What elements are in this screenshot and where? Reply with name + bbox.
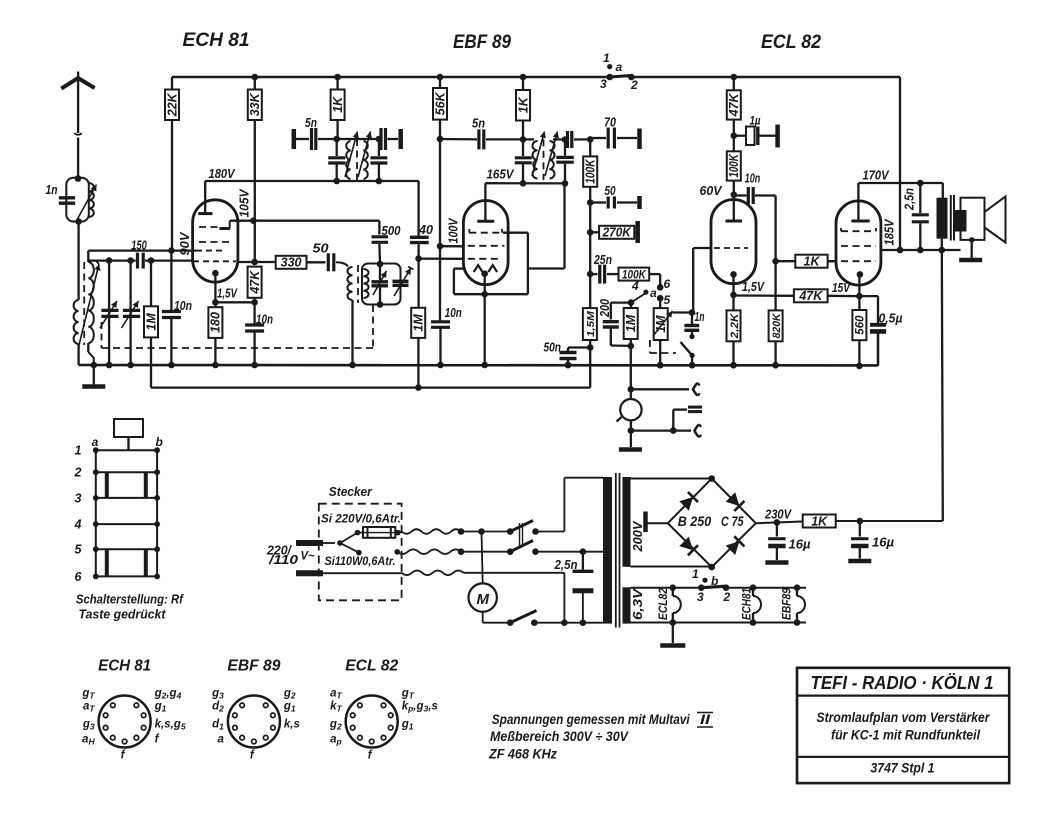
svg-text:40: 40 [418,223,433,237]
svg-text:33K: 33K [248,92,262,116]
resistor 1M (volume divider) [624,308,638,339]
mains plug prong top [296,540,323,546]
svg-text:k,s: k,s [284,719,300,731]
svg-text:1K: 1K [516,96,530,113]
tube ECL82 pentode envelope [836,201,881,285]
wire oscillator feed y=220.7 [230,220,380,222]
ECH81 heptode anode [198,212,212,215]
svg-text:5n: 5n [305,116,317,130]
switch (tone) [681,342,693,355]
pickup plug [672,410,674,431]
svg-text:56K: 56K [433,91,447,115]
pickup line [630,389,632,399]
bridge rectifier B250 C75 [631,478,712,480]
variable capacitor osc 1 [379,264,381,280]
resistor 100K (detector) [583,156,597,186]
capacitor 10n (ECL82 coupling) [734,194,747,196]
svg-text:a: a [650,286,657,300]
svg-text:10n: 10n [256,313,273,327]
wire OT bottom to B+ [941,239,943,250]
wire g1 line 100V [437,243,444,250]
svg-text:EBF 89: EBF 89 [453,32,511,53]
ECH81 cathode [212,270,219,277]
svg-text:5: 5 [75,543,83,557]
svg-text:kp,g3,s: kp,g3,s [402,701,438,714]
dashed AVC bus [101,322,103,348]
svg-text:TEFI - RADIO · KÖLN 1: TEFI - RADIO · KÖLN 1 [811,673,994,693]
oscillator coil [347,267,352,300]
svg-text:B 250: B 250 [678,513,712,529]
svg-text:ECL 82: ECL 82 [761,32,821,53]
mains switch pole 2 [458,548,465,555]
IF transformer 1 terminal left [292,129,297,149]
wire anode 170V line [858,182,942,184]
EBF89 diode plates [474,265,483,272]
wire AVC/grid line y=250.5 [88,249,196,251]
svg-text:5: 5 [664,293,671,307]
wire B+ top bus [172,76,610,79]
svg-text:200V: 200V [630,520,645,552]
svg-text:1K: 1K [811,514,828,528]
svg-text:3: 3 [75,491,82,505]
svg-text:170V: 170V [863,168,890,183]
heater bus [631,587,702,589]
capacitor 2,5n (output) [919,183,921,213]
svg-text:0,5µ: 0,5µ [879,312,903,326]
svg-text:2,5n: 2,5n [554,558,578,572]
mains plug dashed box [319,504,402,601]
resistor 1M (AVC) [150,261,152,307]
svg-text:für KC-1 mit Rundfunkteil: für KC-1 mit Rundfunkteil [831,728,980,743]
dashed coupling (volume pot) [649,340,651,353]
svg-text:90V: 90V [177,231,192,255]
wire 1,5M column [589,274,591,308]
capacitor 1n (tone) [691,313,693,325]
wire screen to B+ [881,249,900,251]
svg-text:165V: 165V [487,167,515,182]
wire pickup bottom [630,420,632,430]
wire g3 line [419,257,463,259]
jack (output 1) [631,388,689,390]
svg-text:1M: 1M [144,313,158,331]
svg-text:Stromlaufplan vom Verstärker: Stromlaufplan vom Verstärker [817,710,991,725]
svg-text:Si110W0,6Atr.: Si110W0,6Atr. [325,554,396,568]
IFT2 tuning capacitor left [522,139,524,156]
IFT1 windings [346,141,350,179]
svg-text:ECH81: ECH81 [742,588,754,620]
svg-text:1M: 1M [624,314,638,332]
jack (output 2) [631,429,673,431]
svg-text:1K: 1K [331,96,345,113]
switch bank contact bars rows2-3 [105,472,109,498]
tube ECH81 envelope [193,200,238,282]
resistor 1K (grid stopper) [772,258,779,265]
svg-text:10n: 10n [445,306,462,320]
resistor 820K [774,261,776,310]
wire chassis rail [79,364,878,367]
variable capacitor osc 2 [393,280,409,283]
fuse Si 110W contact [340,543,359,553]
svg-text:47K: 47K [727,92,741,117]
power transformer heater secondary [623,587,631,623]
svg-text:a: a [217,734,224,746]
svg-text:EBF 89: EBF 89 [227,658,280,675]
mains lead wavy 1 [402,529,461,534]
svg-text:2,5n: 2,5n [903,188,917,211]
IF transformer 1 terminal right [398,129,403,149]
svg-text:200: 200 [598,299,612,318]
ground (chassis left) [93,365,95,385]
svg-text:50: 50 [313,242,329,256]
wire 40-capacitor column [417,181,419,236]
svg-text:820K: 820K [771,312,783,338]
svg-text:M: M [476,591,489,608]
wire IFT1 bottom / ECH81 anode line [205,180,418,182]
svg-text:4: 4 [74,518,82,532]
svg-text:Schalterstellung: Rf: Schalterstellung: Rf [76,592,184,607]
power transformer primary [603,477,612,624]
svg-text:1,5V: 1,5V [217,286,238,301]
svg-text:150: 150 [131,239,147,253]
EBF89 anode [477,220,494,223]
svg-text:EBF89: EBF89 [782,587,794,620]
svg-text:6,3V: 6,3V [631,587,645,620]
svg-text:3: 3 [697,590,704,604]
svg-text:16µ: 16µ [789,538,811,552]
resistor 47K (ECH81 cathode) [248,267,262,298]
resistor 47K (ECL82 plate feed) [731,74,738,81]
title block frame [797,668,1009,783]
svg-text:1n: 1n [46,183,58,197]
ECL82 triode cathode [730,271,737,278]
mains plug prong bottom [296,570,323,576]
svg-text:ZF 468 KHz: ZF 468 KHz [488,747,557,762]
svg-text:70: 70 [604,116,616,130]
capacitor 16u (reservoir) [776,522,778,536]
capacitor 50 (osc grid) [327,253,330,271]
svg-text:ECL 82: ECL 82 [345,658,398,675]
resistor 1,5M [583,308,597,340]
ECL82 pentode grids dashed [841,230,876,232]
oscillator tank enclosure [362,264,401,305]
wire B+ riser to power supply [942,250,943,521]
mains switch pole 1 [458,528,465,535]
variable capacitor tuning gang 2 [129,261,131,365]
svg-text:2: 2 [630,78,638,92]
resistor 1K (IFT2 feed) [520,74,527,81]
wire mains lead bottom [323,572,402,574]
capacitor 50 with terminal [587,199,594,206]
wire B+ right rail [899,77,901,250]
IFT1 tuning capacitor right [378,139,380,156]
svg-text:1M: 1M [654,315,668,333]
resistor 47K (coupling) [734,294,794,297]
power transformer HV secondary [623,477,631,567]
wire diode feed from IFT2 [528,267,565,269]
resistor 1M (IF column) [411,308,425,338]
capacitor 16u (smoothing) [859,521,861,537]
wire wiper to 1n [673,311,693,313]
svg-text:185V: 185V [882,218,897,245]
capacitor 150 [136,253,139,269]
switch contacts 4-a-6-5 [659,274,661,287]
power transformer core [615,473,617,628]
motor M [482,532,483,584]
svg-text:II: II [700,712,710,727]
capacitor (IFT2 right) [566,131,569,148]
antenna coil primary [74,300,79,344]
capacitor 10n (22K bypass) [162,310,181,313]
wire grid2 line y=262 [238,261,276,263]
svg-text:10n: 10n [174,299,192,313]
svg-text:/110: /110 [268,553,298,567]
svg-text:10n: 10n [745,172,761,186]
wire tuned circuit line y=260.6 [88,259,135,261]
svg-text:ECH 81: ECH 81 [183,30,250,51]
svg-text:105V: 105V [236,188,251,217]
wire 56K to IFT2 row [437,136,444,143]
svg-text:1n: 1n [695,310,705,324]
mains lead wavy 2 [397,549,461,554]
dashed gang coupling [372,305,374,348]
tube EBF89 envelope [463,201,508,285]
capacitor 1u with terminal [731,132,738,139]
svg-text:180V: 180V [209,166,236,181]
svg-text:a: a [616,60,623,74]
resistor 1K (IFT1 feed) [334,74,341,81]
heater ECH81 [750,584,757,591]
svg-text:1,5M: 1,5M [585,311,597,337]
heater ECL82 [670,584,677,591]
svg-text:6: 6 [75,570,83,584]
potentiometer 1M (volume) [659,298,661,308]
resistor 330 [276,256,307,269]
wire antenna down-lead [77,222,79,300]
svg-text:Si 220V/0,6Atr.: Si 220V/0,6Atr. [321,512,401,526]
svg-text:60V: 60V [700,183,723,198]
svg-text:1µ: 1µ [750,114,761,128]
svg-text:5n: 5n [472,117,485,131]
spark gap hook [75,133,82,135]
capacitor 70 with terminal [590,137,606,139]
variable capacitor tuning gang 1 [108,261,110,365]
svg-text:270K: 270K [602,226,632,240]
wire IFT2 bottom / EBF89 anode line [485,182,565,184]
mains lead wavy 3 [402,571,464,576]
capacitor 10n (47K bypass) [253,302,255,325]
svg-text:230V: 230V [764,507,792,522]
svg-text:ECL82: ECL82 [658,587,670,620]
capacitor 40 [410,236,429,239]
resistor 100K (AF coupling) [619,268,650,281]
wire rectifier output [756,522,803,524]
svg-text:22K: 22K [165,92,179,117]
switch bank contact bars rows5-6 [105,549,109,576]
svg-text:b: b [156,435,163,449]
push button [114,419,143,437]
svg-text:47K: 47K [798,289,823,303]
svg-text:50: 50 [605,184,616,198]
resistor 560 [858,296,860,310]
svg-text:V~: V~ [301,549,315,563]
svg-text:560: 560 [855,315,867,335]
svg-text:2,2K: 2,2K [729,312,741,339]
capacitor 10n (56K bypass) [439,246,441,321]
svg-text:100K: 100K [727,153,741,177]
resistor 22K [252,74,259,81]
svg-text:1: 1 [75,444,82,458]
svg-text:50n: 50n [544,341,562,355]
svg-text:1: 1 [692,567,699,581]
svg-text:3747 Stpl 1: 3747 Stpl 1 [871,761,935,776]
svg-text:2: 2 [723,590,731,604]
svg-text:500: 500 [382,224,401,238]
svg-text:Spannungen gemessen mit Mul: Spannungen gemessen mit Multavi [492,712,690,727]
ECL82 pentode cathode [857,271,864,278]
svg-text:100V: 100V [446,217,461,243]
heater switch 1-b-3-2 [698,584,705,591]
svg-text:1M: 1M [412,314,426,332]
svg-text:100K: 100K [584,159,598,184]
wire speaker ground [969,237,975,243]
resistor 56K [437,74,444,81]
IFT2 windings [533,141,538,179]
capacitor (IFT1 right) [379,128,382,150]
ground (pickup) [630,431,632,447]
svg-text:Meßbereich 300V ÷ 30V: Meßbereich 300V ÷ 30V [490,729,629,744]
svg-text:1: 1 [603,51,610,65]
pickup head [620,399,641,420]
svg-text:6: 6 [664,277,671,291]
switch contact 1-a-3-2 on bus [606,74,613,81]
output transformer primary [937,198,948,239]
switch mechanical link [519,523,521,547]
antenna coupling unit 1n with coil [66,178,89,222]
antenna coil secondary [87,251,89,262]
ECH81 triode anode [220,227,231,230]
resistor 100K (ECL82 grid feed) [727,151,741,180]
resistor 270K with terminal [587,229,594,236]
capacitor 25n [587,271,594,278]
svg-text:C 75: C 75 [721,513,744,529]
svg-text:4: 4 [631,279,639,293]
switch bank ladder [95,450,97,576]
ground (heater) [672,623,674,644]
svg-text:330: 330 [281,256,302,270]
svg-text:b: b [711,574,718,588]
capacitor 5n (IFT1) [310,128,313,150]
svg-text:1K: 1K [804,255,821,269]
svg-text:25n: 25n [593,253,612,267]
tube ECL82 triode envelope [711,200,756,284]
capacitor 50n [568,346,590,348]
svg-text:1,5V: 1,5V [742,279,765,294]
loudspeaker [961,198,985,240]
svg-text:Taste gedrückt: Taste gedrückt [79,607,167,622]
svg-text:3: 3 [600,77,607,91]
resistor 2,2K [732,295,734,311]
wire AVC return [589,348,591,388]
ECL82 pentode anode [851,220,869,223]
svg-text:47K: 47K [248,270,262,295]
svg-text:ECH 81: ECH 81 [98,658,151,675]
EBF89 grids dashed [469,232,502,234]
svg-text:a: a [92,435,99,449]
wire mains lead3 to motor switch [464,572,565,574]
wire rail end up to cathode [877,333,879,365]
IFT2 tuning capacitor right [564,140,566,156]
wire detector column [587,136,594,143]
EBF89 cathode [481,270,488,277]
capacitor 0,5u [859,295,878,297]
ECL82 triode anode [731,191,738,198]
resistor 180 [208,307,222,338]
resistor 33K [254,77,256,90]
capacitor 2,5n (mains) [582,552,584,570]
IFT1 tuning capacitor left [336,139,338,156]
wire grid line to ECL82 triode [693,247,711,249]
ECL82 triode grid dashed [714,247,748,249]
svg-text:2: 2 [74,466,82,480]
EBF89 screen/shield bracket [503,232,528,234]
svg-text:Stecker: Stecker [329,484,373,499]
antenna [61,78,94,89]
motor switch [482,612,484,623]
wire screen node line [900,249,961,251]
capacitor 200 loop [628,299,635,306]
heater EBF89 [794,584,801,591]
ground (speaker) [959,258,982,263]
terminal 200V [643,512,648,533]
capacitor 500 (padder) [378,221,380,235]
resistor 1K (smoothing) [803,515,836,528]
svg-text:16µ: 16µ [872,536,894,550]
capacitor 5n (IFT2) [477,129,480,149]
svg-text:180: 180 [209,312,223,333]
ECH81 grids (dashed) [199,226,218,228]
wire cathode 1,5V [215,301,254,303]
